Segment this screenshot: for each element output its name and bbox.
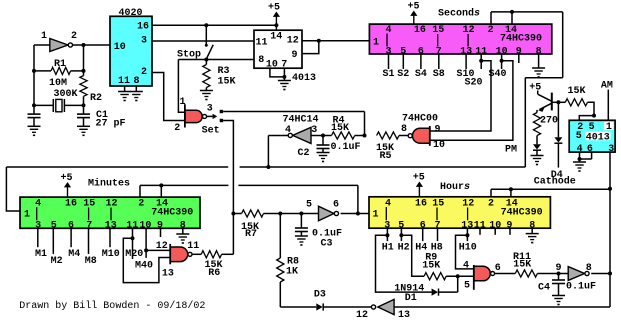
inverter pins 12-13 [356,299,410,321]
svg-text:R2: R2 [90,93,102,104]
ground [28,118,41,137]
svg-text:74HC390: 74HC390 [501,207,543,218]
svg-text:0.1uF: 0.1uF [330,142,360,153]
svg-text:M2: M2 [51,256,63,267]
svg-text:14: 14 [270,32,282,43]
ground [200,88,213,101]
wire [32,45,36,107]
wire Set vertical to R6/R7 node [223,121,235,255]
wire pin3 down right side [608,152,612,307]
node M10 [102,229,120,260]
wire S20 to 74HC00 pin9 [430,61,491,131]
node H10 [459,228,477,253]
svg-text:4020: 4020 [118,8,142,19]
wire inverter to right bus [394,306,610,308]
node S40 [488,54,506,80]
svg-text:Set: Set [202,126,220,137]
svg-text:+5: +5 [60,173,72,184]
wire pin12 feedback to pin9 [302,39,321,54]
IC U5 74HC390 Seconds counter [369,24,551,57]
svg-text:S8: S8 [433,69,445,80]
ground [77,118,90,137]
resistor R3 15K [203,60,236,88]
svg-text:5: 5 [306,200,312,211]
power +5 [407,2,419,25]
svg-text:R7: R7 [245,229,257,240]
svg-text:H1: H1 [382,243,394,254]
svg-text:Drawn by Bill Bowden - 09/18/0: Drawn by Bill Bowden - 09/18/02 [19,300,205,312]
diode D3 [314,290,326,311]
svg-text:16: 16 [415,199,427,210]
resistor R7 15K [233,210,318,240]
label PM [505,145,517,156]
svg-text:74HC14: 74HC14 [282,115,318,126]
node S20 [464,54,483,89]
svg-text:1: 1 [373,37,379,48]
svg-text:M4: M4 [68,249,80,260]
svg-text:2: 2 [174,123,180,134]
wire R8 to D3 [280,306,316,308]
wire [311,135,323,137]
svg-text:15K: 15K [422,260,440,271]
svg-text:8: 8 [133,76,139,87]
wire [73,43,110,47]
svg-text:+5: +5 [529,83,541,94]
svg-text:M10: M10 [102,249,120,260]
svg-text:4: 4 [285,125,291,136]
power +5 [60,173,72,197]
IC U11 74HC390 Minutes counter [20,197,200,231]
wire pin2 to Set gate pin1 input [152,73,185,121]
diode PM LED [533,144,541,155]
capacitor C4 0.1uF [538,272,596,294]
svg-text:8: 8 [401,124,407,135]
resistor R5 15K [376,132,408,162]
svg-text:H2: H2 [398,243,410,254]
svg-text:74HC00: 74HC00 [402,114,438,125]
capacitor C3 0.1uF [295,214,342,250]
wire H10 to gate pin4 [456,235,474,269]
wire pin9 stub [518,54,520,63]
wire 74HC14 out to reset bus [268,136,288,168]
svg-text:8: 8 [258,55,264,66]
svg-text:10: 10 [433,140,445,151]
IC U9 74HC390 Hours counter [369,197,550,232]
svg-text:5: 5 [576,131,582,142]
svg-text:11: 11 [255,38,267,49]
svg-text:15K: 15K [217,77,235,88]
ground [532,54,545,78]
svg-text:1: 1 [606,122,612,133]
node H1 [382,228,394,253]
node M20 [125,229,143,260]
svg-text:15K: 15K [331,123,349,134]
resistor 270 [533,110,558,144]
svg-text:+5: +5 [413,173,425,184]
resistor R8 1K [277,214,299,308]
node M8 [85,229,97,267]
node M2 [51,229,63,267]
ground [531,156,544,166]
svg-text:2: 2 [141,67,147,78]
svg-text:4: 4 [35,198,41,209]
node M1 [35,229,47,260]
ground [176,229,189,244]
svg-text:8: 8 [586,263,592,274]
label Hours [440,182,470,193]
svg-text:C3: C3 [320,239,332,250]
ground [573,159,586,172]
resistor R2 300K [80,45,102,107]
svg-text:11: 11 [187,241,199,252]
svg-text:15K: 15K [567,86,585,97]
ground [552,284,565,306]
power +5 [413,173,425,197]
svg-text:6: 6 [333,200,339,211]
svg-text:16: 16 [137,22,149,33]
svg-text:16: 16 [414,25,426,36]
svg-text:74HC390: 74HC390 [500,34,542,45]
svg-text:300K: 300K [53,89,77,100]
svg-text:13: 13 [398,310,410,321]
nand gate pins 12-13-11 [156,241,200,280]
svg-text:D1: D1 [405,293,417,304]
svg-text:+5: +5 [407,2,419,13]
svg-text:4: 4 [463,261,469,272]
svg-text:27 pF: 27 pF [95,119,125,130]
svg-text:R6: R6 [208,268,220,279]
svg-text:Hours: Hours [440,182,470,193]
svg-text:2: 2 [488,25,494,36]
transistor Q1 PNP [529,83,552,112]
svg-text:M1: M1 [35,249,47,260]
svg-text:10: 10 [266,60,278,71]
resistor 15K base [565,86,596,120]
svg-text:R1: R1 [54,59,66,70]
svg-text:M40: M40 [135,261,153,272]
node H4 [415,228,427,253]
svg-text:4013: 4013 [586,133,610,144]
svg-text:9: 9 [435,125,441,136]
svg-text:R5: R5 [379,151,391,162]
svg-text:10: 10 [114,42,126,53]
diode D1 1N914 [394,276,458,304]
svg-text:10M: 10M [49,78,67,89]
svg-text:C2: C2 [297,148,309,159]
svg-text:0.1uF: 0.1uF [566,282,596,293]
svg-text:S20: S20 [464,78,482,89]
wire M40 to gate pin12 [146,249,170,251]
wire pin16 to +5 rail [152,24,276,26]
ground [317,149,330,163]
svg-text:15: 15 [83,199,95,210]
svg-text:1: 1 [179,97,185,108]
capacitor C2 0.1uF [297,134,360,160]
svg-text:S4: S4 [415,69,427,80]
wire long reset bus to Minutes pin1 [6,165,525,211]
wire pins 10-7 to ground [270,68,287,79]
wire pins 11,10,9 stubs [480,228,510,235]
crystal Y1 300K label [34,89,84,112]
IC U8 4013 AM/PM flip-flop [569,120,615,155]
svg-text:Seconds: Seconds [438,8,480,20]
wire pin12 to Seconds pin1 [319,40,370,42]
node M40 [135,229,153,272]
svg-text:13: 13 [162,269,174,280]
svg-text:1: 1 [24,209,30,220]
svg-text:13: 13 [105,220,117,231]
wire Hours pins 2,14 rail [491,187,610,197]
wire M20 to gate pin13 [123,238,170,282]
wire buffer out to Hours pin1 node [341,213,358,215]
switch Stop [177,23,213,60]
wire D3 to inverter [323,306,371,308]
nand gate pins 4-5-6 [463,261,501,292]
wire Set to R4/74HC14 node [223,111,364,113]
svg-text:R3: R3 [217,66,229,77]
svg-text:3: 3 [608,144,614,155]
svg-text:2: 2 [138,199,144,210]
diode D4 [534,102,576,187]
svg-text:12: 12 [356,310,368,321]
IC U2 4020 binary counter [110,8,152,87]
svg-text:6: 6 [495,263,501,274]
svg-text:1: 1 [41,31,47,42]
capacitor (osc left) [28,105,41,117]
svg-text:Minutes: Minutes [88,178,130,190]
svg-text:C4: C4 [538,283,550,294]
wire [34,44,50,46]
label Seconds [438,8,480,20]
svg-text:11: 11 [118,76,130,87]
capacitor C1 27pF [77,105,126,129]
wire pins 4,6 to ground [578,152,592,161]
wire pin3 to 4013 pin11 [152,40,254,42]
ground [526,228,539,243]
ground [118,86,131,101]
svg-text:3: 3 [311,125,317,136]
node S1 S2 S4 S8 S10 outputs [382,54,474,80]
svg-text:S2: S2 [397,69,409,80]
svg-text:4013: 4013 [292,73,316,84]
IC U3 4013 flip-flop [254,30,316,84]
ground [278,77,291,90]
svg-text:D3: D3 [314,290,326,301]
wire AM line [601,80,613,120]
ground [295,232,308,246]
wire H1 to D1 [376,235,432,292]
resistor R11 15K [495,252,552,277]
node H8 [431,228,443,253]
inverter U7A 74HC14 pins 3-4 [282,115,318,144]
resistor R4 15K [323,112,367,140]
inverter pins 9-8 [555,263,591,280]
svg-text:270: 270 [540,116,558,127]
svg-text:3: 3 [207,104,213,115]
wire pin9 stub [160,229,162,237]
svg-text:12: 12 [287,36,299,47]
svg-text:+5: +5 [268,3,280,14]
wire node to 4013 pin8 and Set pin1 [178,58,254,113]
label Minutes [88,178,130,190]
resistor R6 15K [192,251,233,279]
wire to right bus [591,273,610,275]
nand gate Set pins 1-2-3 [174,97,223,137]
svg-text:PM: PM [505,145,517,156]
svg-text:M8: M8 [85,256,97,267]
svg-text:1K: 1K [286,267,298,278]
note drawn by [19,300,205,312]
svg-text:2: 2 [488,199,494,210]
svg-text:2: 2 [71,31,77,42]
inverter U1A crystal oscillator pins 1-2 [41,31,77,52]
svg-text:S1: S1 [382,69,394,80]
nand gate U6 74HC00 pins 8-9-10 [401,114,445,152]
svg-text:15K: 15K [513,259,531,270]
svg-text:5: 5 [464,281,470,292]
ground [130,86,143,101]
buffer pins 5-6 [306,200,339,221]
svg-text:7: 7 [86,220,92,231]
svg-text:16: 16 [65,199,77,210]
svg-text:9: 9 [291,50,297,61]
svg-text:15: 15 [432,199,444,210]
svg-text:H10: H10 [459,243,477,254]
node M4 [68,229,80,260]
svg-text:9: 9 [555,263,561,274]
resistor R1 10M [34,59,84,89]
svg-text:Cathode: Cathode [534,176,576,188]
svg-text:AM: AM [601,80,613,91]
svg-text:12: 12 [156,241,168,252]
wire S40 to 74HC00 pin10 [430,61,513,141]
svg-text:M20: M20 [125,249,143,260]
wire Minutes pins 2,14 rail to Hours pin1 [140,183,369,215]
wire Seconds pins 2,14 reset rail [491,10,563,167]
svg-text:74HC390: 74HC390 [151,207,193,218]
svg-text:3: 3 [141,36,147,47]
power +5 [268,3,280,31]
wire H2 to R9 [401,235,424,276]
svg-text:5: 5 [589,122,595,133]
node H2 [398,228,410,253]
wire base node [552,100,566,104]
resistor R9 15K [422,253,474,280]
svg-text:1: 1 [372,209,378,220]
